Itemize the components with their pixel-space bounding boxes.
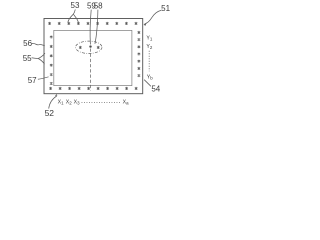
svg-text:X2: X2 (66, 99, 72, 105)
svg-text:52: 52 (45, 108, 55, 118)
leader 58 (95, 10, 98, 44)
leader 57 (38, 77, 49, 79)
svg-text:56: 56 (23, 39, 32, 48)
svg-text:Xa: Xa (123, 99, 129, 105)
dotted run Y (148, 51, 150, 72)
svg-text:Y2: Y2 (146, 44, 152, 50)
svg-text:58: 58 (94, 1, 103, 10)
leader 56 wavy (32, 43, 45, 45)
svg-text:51: 51 (161, 4, 170, 13)
inner rectangle active area (54, 30, 132, 85)
top mark row (48, 22, 137, 25)
svg-text:57: 57 (28, 76, 37, 85)
svg-text:53: 53 (71, 1, 80, 10)
leader 53 fork (68, 9, 79, 23)
bottom mark row (49, 87, 137, 90)
leader 54 (144, 80, 151, 87)
touch ellipse (phantom outline) (76, 41, 102, 53)
ellipse inner mark right (97, 46, 100, 49)
leader 59 (90, 10, 91, 45)
dotted run X (82, 102, 122, 104)
svg-text:X3: X3 (74, 99, 80, 105)
svg-text:Yb: Yb (147, 74, 153, 80)
outer rectangle panel 51 (44, 19, 143, 94)
svg-text:55: 55 (23, 54, 32, 63)
leader 51 (145, 10, 162, 24)
svg-text:Y1: Y1 (146, 36, 152, 42)
svg-text:X1: X1 (58, 99, 64, 105)
leader 55 fork (32, 53, 45, 64)
centre dashed line (90, 49, 92, 91)
svg-text:54: 54 (151, 84, 160, 93)
ellipse inner mark left (79, 46, 82, 49)
ellipse centre dot (89, 45, 91, 47)
right mark column (138, 31, 141, 77)
leader 52 (49, 96, 57, 109)
left mark column (50, 36, 53, 86)
